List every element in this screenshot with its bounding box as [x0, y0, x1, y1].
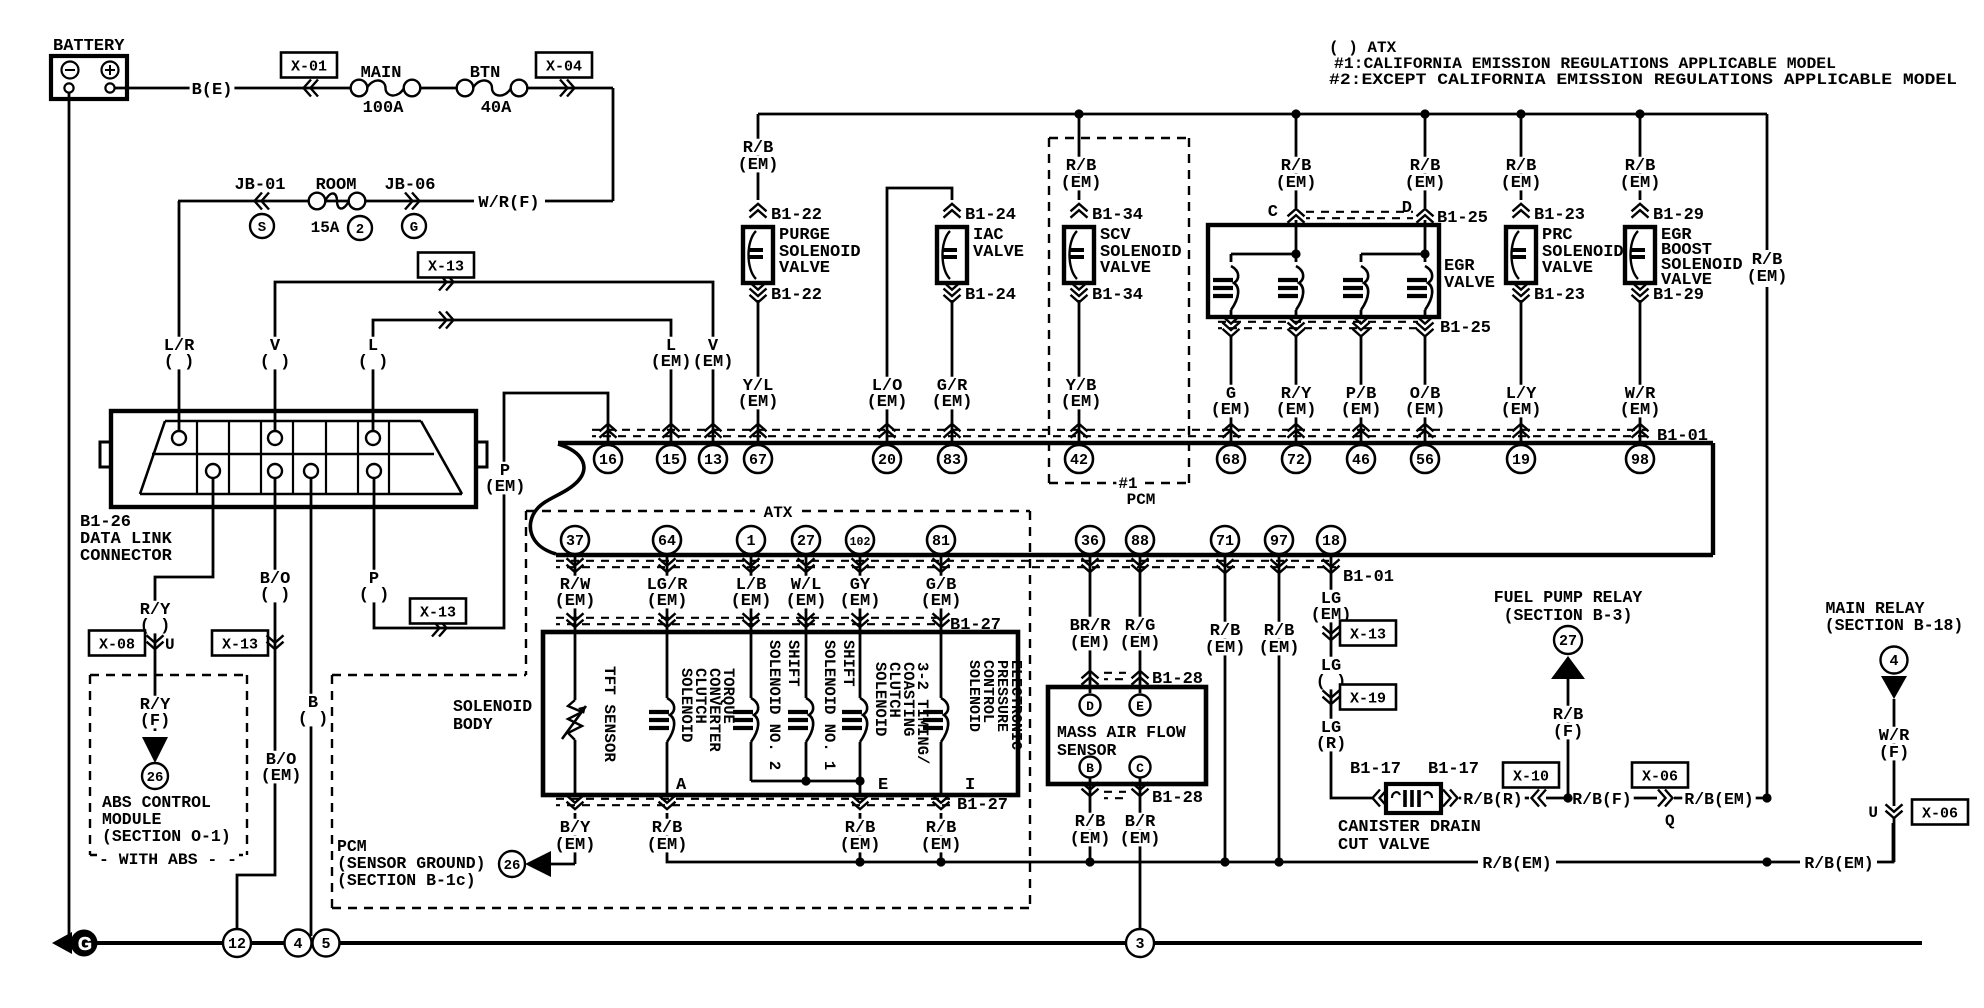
wire PCM pin 71 to R/B rail, label R/B(EM) — [1224, 556, 1227, 862]
svg-text:83: 83 — [943, 452, 961, 469]
svg-text:26: 26 — [504, 858, 521, 874]
wire rail to main relay, label R/B(EM) — [1767, 861, 1800, 864]
svg-text:97: 97 — [1270, 533, 1288, 550]
svg-text:CANISTER DRAIN: CANISTER DRAIN — [1338, 818, 1481, 837]
svg-text:(EM): (EM) — [1259, 639, 1300, 658]
wire PCM pin 102 to solenoid body, label GY(EM) — [859, 555, 862, 632]
svg-text:SOLENOID NO. 1: SOLENOID NO. 1 — [820, 640, 838, 770]
electronic pressure control solenoid — [940, 632, 943, 698]
connector line B1-25 top — [1306, 211, 1413, 213]
svg-text:B1-23: B1-23 — [1534, 286, 1585, 305]
svg-text:B(E): B(E) — [192, 81, 233, 100]
svg-text:R/B(F): R/B(F) — [1572, 790, 1631, 809]
wire PCM pin 88 to MAF E, label R/G(EM) — [1139, 556, 1142, 693]
node rail feeder junction — [1762, 857, 1771, 866]
data link connector pin B/O — [268, 464, 282, 478]
svg-text:5: 5 — [321, 936, 330, 953]
connector X-13 box upper — [418, 253, 474, 278]
connector X-13 at LG wire — [1340, 621, 1396, 646]
connector X-06 at pump wire — [1632, 763, 1688, 788]
PCM pin 18 — [1317, 526, 1345, 554]
svg-text:W/R(F): W/R(F) — [478, 194, 539, 213]
node EGR C tap — [1291, 109, 1300, 118]
svg-text:3: 3 — [1135, 936, 1144, 953]
node 26 sensor ground — [499, 851, 525, 877]
IAC valve connector B1-24 bottom chevron — [944, 282, 961, 290]
wire SCV valve to PCM pin 42, label Y/B(EM) — [1078, 300, 1081, 443]
svg-text:B1-01: B1-01 — [1343, 568, 1394, 587]
PCM pin 36 — [1076, 526, 1104, 554]
MAF pin C — [1130, 757, 1151, 778]
svg-text:13: 13 — [704, 452, 722, 469]
wire canister valve to fuel pump node, label R/B(R) — [1459, 797, 1529, 800]
svg-text:SHIFT: SHIFT — [784, 640, 802, 687]
wire PCM pin 27 to solenoid body, label W/L(EM) — [805, 555, 808, 632]
svg-text:VALVE: VALVE — [1100, 259, 1151, 278]
EGR BOOST valve connector B1-29 bottom chevron — [1632, 282, 1649, 290]
connector X-10 — [1503, 763, 1559, 788]
svg-text:(EM): (EM) — [786, 592, 827, 611]
svg-text:VALVE: VALVE — [1444, 274, 1495, 293]
wire bus to EGR valve pin D, label R/B(EM) — [1424, 114, 1427, 208]
svg-text:100A: 100A — [363, 99, 405, 118]
data link connector pin V — [268, 431, 282, 445]
node pin97 junction — [1274, 857, 1283, 866]
svg-text:(EM): (EM) — [647, 592, 688, 611]
node shift no.1 junction — [801, 776, 810, 785]
connector X-19 — [1340, 685, 1396, 710]
PURGE valve connector B1-22 bottom chevron — [750, 282, 767, 290]
svg-text:U: U — [165, 636, 175, 654]
svg-text:( ): ( ) — [359, 586, 390, 605]
PCM pin 102 — [846, 526, 874, 554]
PCM pin 27 — [792, 526, 820, 554]
svg-text:102: 102 — [850, 536, 871, 549]
ground node 12 — [223, 929, 251, 957]
wire EGR valve to PCM pin 72, label R/Y(EM) — [1295, 336, 1298, 443]
PRC valve connector B1-23 top chevron — [1513, 204, 1530, 212]
PCM pin 20 — [873, 445, 901, 473]
wire R/B(EM) supply bus — [758, 113, 1767, 116]
PCM sensor ground arrow — [525, 851, 551, 877]
svg-text:37: 37 — [566, 533, 584, 550]
wire solenoid I output to R/B rail, label R/B(EM) — [940, 813, 943, 862]
svg-text:X-13: X-13 — [428, 259, 464, 276]
TFT sensor — [574, 632, 577, 700]
node EGR coil1 junction — [1291, 249, 1300, 258]
wire PCM pin 81 to solenoid body, label G/B(EM) — [940, 555, 943, 632]
svg-text:U: U — [1868, 804, 1878, 822]
svg-text:(EM): (EM) — [731, 592, 772, 611]
data link connector pin L/R — [172, 431, 186, 445]
svg-text:C: C — [1268, 203, 1278, 222]
svg-text:SOLENOID: SOLENOID — [677, 668, 695, 742]
svg-text:X-13: X-13 — [222, 637, 258, 654]
svg-text:27: 27 — [1559, 633, 1577, 650]
svg-text:X-06: X-06 — [1922, 806, 1958, 823]
shift solenoid no.2 — [750, 632, 753, 698]
wire bus to PRC solenoid valve, label R/B(EM) — [1520, 114, 1523, 200]
svg-text:(EM): (EM) — [1341, 401, 1382, 420]
svg-text:18: 18 — [1322, 533, 1340, 550]
svg-text:B: B — [1086, 761, 1094, 776]
svg-text:BATTERY: BATTERY — [53, 37, 125, 56]
PCM pin 42 — [1065, 445, 1093, 473]
SCV valve connector B1-34 top chevron — [1071, 204, 1088, 212]
ground rail wire — [69, 941, 1922, 945]
svg-text:E: E — [878, 776, 888, 795]
svg-text:ROOM: ROOM — [316, 176, 357, 195]
svg-text:(SECTION B-3): (SECTION B-3) — [1504, 606, 1633, 625]
svg-text:(EM): (EM) — [921, 592, 962, 611]
wire EGR boost valve to PCM pin 98, label W/R(EM) — [1639, 300, 1642, 443]
fuel pump relay arrow — [1551, 656, 1585, 679]
ground node 4 — [285, 930, 312, 957]
svg-text:(EM): (EM) — [647, 836, 688, 855]
canister drain cut valve body — [1386, 784, 1441, 813]
wire PCM pin 18 to canister valve, labels LG(EM) LG( ) LG(R) — [1331, 556, 1372, 798]
wire EGR valve to PCM pin 68, label G(EM) — [1230, 336, 1233, 443]
svg-text:B1-28: B1-28 — [1152, 789, 1203, 808]
svg-text:(EM): (EM) — [738, 393, 779, 412]
wire X-13 lower: DLC L to PCM pin 15 — [373, 320, 671, 443]
svg-text:4: 4 — [1889, 653, 1898, 670]
PCM pin 72 — [1282, 445, 1310, 473]
svg-text:R/B(EM): R/B(EM) — [1482, 854, 1551, 873]
PCM pin 71 — [1211, 526, 1239, 554]
svg-text:(EM): (EM) — [1405, 401, 1446, 420]
PCM pin 81 — [927, 526, 955, 554]
svg-text:26: 26 — [147, 770, 164, 786]
svg-text:(EM): (EM) — [1620, 174, 1661, 193]
wire PCM pin 1 to solenoid body, label L/B(EM) — [750, 555, 753, 632]
EGR BOOST valve body — [1625, 227, 1655, 283]
svg-text:R/B(EM): R/B(EM) — [1684, 790, 1753, 809]
MAF pin E — [1130, 695, 1151, 716]
connector line B1-27 bottom — [567, 795, 584, 803]
data link connector pin R/Y — [206, 464, 220, 478]
svg-text:(R): (R) — [1316, 735, 1347, 754]
connector X-13 at B/O wire — [212, 631, 268, 656]
EGR valve coil — [1425, 266, 1432, 310]
fuse ROOM 15A — [314, 176, 359, 193]
svg-text:(F): (F) — [140, 712, 171, 731]
wire DLC R/Y down to ABS module, label R/Y( ) — [155, 478, 213, 731]
svg-text:R/B(EM): R/B(EM) — [1804, 854, 1873, 873]
EGR valve body — [1208, 225, 1439, 317]
svg-text:(EM): (EM) — [1501, 401, 1542, 420]
wire battery to X-01, label B(E) — [115, 87, 351, 90]
svg-text:(EM): (EM) — [1211, 401, 1252, 420]
wire battery negative to ground rail — [68, 93, 71, 941]
svg-text:X-10: X-10 — [1513, 769, 1549, 786]
data link connector pin L — [366, 431, 380, 445]
svg-text:CONNECTOR: CONNECTOR — [80, 547, 173, 566]
svg-text:B1-24: B1-24 — [965, 286, 1016, 305]
svg-text:B1-22: B1-22 — [771, 206, 822, 225]
svg-text:4: 4 — [293, 936, 302, 953]
node EGR boost tap — [1635, 109, 1644, 118]
PCM pin 56 — [1411, 445, 1439, 473]
wire main relay down, label W/R(F) — [1893, 699, 1896, 806]
svg-text:(SECTION B-1c): (SECTION B-1c) — [337, 871, 476, 890]
svg-text:(EM): (EM) — [1120, 634, 1161, 653]
svg-text:72: 72 — [1287, 452, 1305, 469]
svg-text:(EM): (EM) — [1070, 634, 1111, 653]
svg-text:(SECTION B-18): (SECTION B-18) — [1825, 616, 1964, 635]
wire EGR valve to PCM pin 46, label P/B(EM) — [1360, 336, 1363, 443]
PCM pin 16 — [594, 445, 622, 473]
svg-text:X-04: X-04 — [546, 59, 582, 76]
svg-text:R/B(R): R/B(R) — [1463, 790, 1522, 809]
connector line B1-25 bottom — [1223, 316, 1240, 324]
EGR valve coil — [1296, 266, 1303, 310]
svg-text:56: 56 — [1416, 452, 1434, 469]
PCM pin 64 — [653, 526, 681, 554]
3-2 timing coasting clutch solenoid — [859, 632, 862, 698]
connector X-08 — [89, 631, 145, 656]
wire bus right down to relay network, label R/B(EM) — [1766, 114, 1769, 250]
svg-text:B1-29: B1-29 — [1653, 206, 1704, 225]
PCM pin 19 — [1507, 445, 1535, 473]
PCM pin 37 — [561, 526, 589, 554]
SCV valve body — [1064, 227, 1094, 283]
node PRC tap — [1516, 109, 1525, 118]
wire MAF B to R/B rail, label R/B(EM) — [1089, 778, 1092, 862]
torque converter clutch solenoid — [666, 632, 669, 698]
canister valve connector B1-17 left — [1373, 790, 1381, 807]
wire MAF C to ground node 3, label B/R(EM) — [1139, 778, 1142, 929]
connector X-01 — [281, 53, 337, 78]
svg-text:(EM): (EM) — [1276, 174, 1317, 193]
node 26 ABS — [142, 763, 168, 789]
data link connector B1-26 body — [111, 411, 476, 507]
wire fuel pump relay to junction, label R/B(F) — [1567, 679, 1570, 798]
IAC valve body — [937, 227, 967, 283]
svg-text:B1-24: B1-24 — [965, 206, 1016, 225]
SCV valve connector B1-34 bottom chevron — [1071, 282, 1088, 290]
svg-text:12: 12 — [228, 936, 246, 953]
ABS control module dashed box — [90, 674, 247, 676]
svg-text:(EM): (EM) — [485, 478, 526, 497]
svg-text:( ): ( ) — [260, 586, 291, 605]
wire room fuse row to DLC pin L/R, label L/R( ) — [178, 201, 181, 431]
svg-text:I: I — [965, 776, 975, 795]
svg-text:20: 20 — [878, 452, 896, 469]
svg-text:67: 67 — [749, 452, 767, 469]
node feeder junction — [1762, 793, 1771, 802]
svg-text:46: 46 — [1352, 452, 1370, 469]
svg-text:42: 42 — [1070, 452, 1088, 469]
node pin71 junction — [1220, 857, 1229, 866]
svg-text:2: 2 — [356, 222, 364, 238]
node 27 fuel pump relay — [1554, 626, 1582, 654]
wire X-04 down to W/R(F) row — [612, 88, 615, 201]
svg-text:(SECTION O-1): (SECTION O-1) — [102, 827, 231, 846]
shift solenoid no.1 — [805, 632, 808, 698]
svg-text:VALVE: VALVE — [1661, 271, 1712, 290]
svg-text:JB-06: JB-06 — [384, 176, 435, 195]
wire PCM pin 20 to IAC valve top, label L/O(EM) — [887, 188, 952, 443]
data link connector pin B — [304, 464, 318, 478]
svg-text:(F): (F) — [1879, 744, 1910, 763]
svg-text:(F): (F) — [1553, 723, 1584, 742]
PCM pin 67 — [744, 445, 772, 473]
svg-text:A: A — [676, 776, 687, 795]
svg-text:27: 27 — [797, 533, 815, 550]
wire shift no.1 to node E — [806, 780, 860, 783]
svg-text:C: C — [1136, 761, 1144, 776]
connector line B1-28 bottom — [1104, 791, 1126, 793]
svg-text:SOLENOID: SOLENOID — [871, 662, 889, 736]
wire TFT sensor output to sensor ground, label B/Y(EM) — [574, 813, 577, 864]
wire to R/B(EM) feeder, label R/B(EM) — [1674, 797, 1767, 800]
svg-text:(EM): (EM) — [1747, 268, 1788, 287]
svg-text:( ): ( ) — [358, 353, 389, 372]
svg-text:E: E — [1136, 699, 1144, 714]
PCM pin 83 — [938, 445, 966, 473]
svg-text:ATX: ATX — [764, 504, 793, 522]
svg-text:CUT VALVE: CUT VALVE — [1338, 836, 1430, 855]
node fuel pump relay tap — [1563, 793, 1572, 802]
PCM pin 97 — [1265, 526, 1293, 554]
wire DLC P to PCM pin 16 via X-13, labels P( ) and P(EM) — [374, 393, 608, 628]
connector X-06 at main relay wire — [1886, 804, 1903, 812]
svg-text:S: S — [258, 220, 266, 236]
PCM pin 1 — [737, 526, 765, 554]
node EGR coil2 junction — [1420, 249, 1429, 258]
svg-text:B1-17: B1-17 — [1428, 760, 1479, 779]
junction JB-01 — [232, 176, 287, 193]
PCM pin 98 — [1626, 445, 1654, 473]
svg-text:(EM): (EM) — [840, 592, 881, 611]
svg-text:(EM): (EM) — [1070, 830, 1111, 849]
wire R/B(EM) rail label left — [1480, 855, 1553, 871]
solenoid body box — [543, 632, 1018, 795]
wire solenoid E output to R/B rail, label R/B(EM) — [859, 813, 862, 862]
wire EGR valve to PCM pin 56, label O/B(EM) — [1424, 336, 1427, 443]
EGR valve coil — [1231, 266, 1238, 310]
svg-text:X-13: X-13 — [420, 605, 456, 622]
wire between fuses — [420, 87, 457, 90]
svg-text:SHIFT: SHIFT — [839, 640, 857, 687]
svg-text:#2:EXCEPT CALIFORNIA EMISSION: #2:EXCEPT CALIFORNIA EMISSION REGULATION… — [1329, 71, 1957, 89]
svg-text:- WITH ABS - -: - WITH ABS - - — [99, 851, 237, 869]
svg-text:PCM: PCM — [1127, 491, 1156, 509]
node EGR D tap — [1420, 109, 1429, 118]
mass air flow sensor box — [1048, 687, 1206, 784]
svg-text:(EM): (EM) — [932, 393, 973, 412]
svg-text:X-08: X-08 — [99, 637, 135, 654]
wire PCM pin 37 to solenoid body, label R/W(EM) — [574, 555, 577, 632]
node MAF B junction — [1085, 857, 1094, 866]
wire bus to EGR valve pin C, label R/B(EM) — [1295, 114, 1298, 208]
svg-text:68: 68 — [1222, 452, 1240, 469]
svg-text:X-19: X-19 — [1350, 691, 1386, 708]
node I output junction — [936, 857, 945, 866]
PCM pin 46 — [1347, 445, 1375, 473]
PCM pin 13 — [699, 445, 727, 473]
ATX dashed region with PCM sensor ground — [526, 510, 755, 512]
wire DLC B down to ground nodes 4/5, label B( ) — [310, 478, 313, 936]
svg-text:(EM): (EM) — [1061, 393, 1102, 412]
svg-text:B1-34: B1-34 — [1092, 286, 1143, 305]
wire shift no.2 to node E — [751, 780, 806, 783]
svg-text:19: 19 — [1512, 452, 1530, 469]
wire to fuel pump relay junction, label R/B(F) — [1546, 797, 1657, 800]
svg-text:15: 15 — [662, 452, 680, 469]
label R/Y(F) — [138, 696, 173, 713]
svg-text:JB-01: JB-01 — [234, 176, 285, 195]
wire PCM pin 36 to MAF D, label BR/R(EM) — [1089, 556, 1092, 693]
svg-text:SOLENOID NO. 2: SOLENOID NO. 2 — [765, 640, 783, 770]
svg-text:D: D — [1086, 699, 1094, 714]
wire rail to feeder — [1556, 861, 1767, 864]
node SCV tap — [1074, 109, 1083, 118]
svg-text:VALVE: VALVE — [1542, 259, 1593, 278]
wire IAC valve to PCM pin 83, label G/R(EM) — [951, 300, 954, 443]
connector line B1-28 top — [1104, 672, 1126, 674]
svg-text:X-01: X-01 — [291, 59, 327, 76]
PCM pin 88 — [1126, 526, 1154, 554]
svg-text:(EM): (EM) — [840, 836, 881, 855]
EGR valve internal wires — [1295, 220, 1298, 262]
svg-text:G: G — [410, 220, 418, 236]
PURGE valve body — [743, 227, 773, 283]
wire purge valve to PCM pin 67, label Y/L(EM) — [757, 300, 760, 443]
svg-text:FUEL PUMP RELAY: FUEL PUMP RELAY — [1494, 588, 1643, 607]
wire PCM pin 97 to R/B rail, label R/B(EM) — [1278, 556, 1281, 862]
wire DLC B/O down to ground node 12, labels B/O( ) B/O(EM) — [237, 478, 275, 929]
data link connector pin P — [367, 464, 381, 478]
junction JB-06 — [382, 176, 437, 193]
svg-text:B1-34: B1-34 — [1092, 206, 1143, 225]
wire bus to EGR boost solenoid valve, label R/B(EM) — [1639, 114, 1642, 200]
svg-text:TFT SENSOR: TFT SENSOR — [600, 666, 618, 762]
svg-text:SOLENOID: SOLENOID — [965, 660, 982, 732]
wire W/R(F) row — [178, 200, 474, 203]
svg-text:15A: 15A — [311, 219, 340, 237]
svg-text:40A: 40A — [481, 99, 512, 118]
svg-text:71: 71 — [1216, 533, 1234, 550]
svg-text:X-13: X-13 — [1350, 627, 1386, 644]
svg-text:(EM): (EM) — [555, 592, 596, 611]
ABS arrow to circuit 26 — [142, 737, 168, 763]
svg-text:( ): ( ) — [298, 710, 329, 729]
svg-text:(EM): (EM) — [867, 393, 908, 412]
ground G — [52, 932, 72, 954]
PCM pin 15 — [657, 445, 685, 473]
PRC valve connector B1-23 bottom chevron — [1513, 282, 1530, 290]
svg-text:(EM): (EM) — [693, 353, 734, 372]
dashed box #1 California model — [1049, 137, 1189, 139]
svg-text:(EM): (EM) — [1061, 174, 1102, 193]
svg-text:B1-23: B1-23 — [1534, 206, 1585, 225]
svg-text:B1-27: B1-27 — [957, 796, 1008, 815]
canister valve connector B1-17 right — [1443, 790, 1451, 807]
svg-text:BODY: BODY — [453, 715, 493, 734]
svg-text:1: 1 — [746, 533, 755, 550]
svg-text:( ): ( ) — [260, 353, 291, 372]
wire X-13 upper: DLC V to PCM pin 13 — [275, 282, 713, 443]
ground node 5 — [313, 930, 340, 957]
svg-text:VALVE: VALVE — [779, 259, 830, 278]
svg-text:16: 16 — [599, 452, 617, 469]
EGR valve coil — [1361, 266, 1368, 310]
PCM pin 68 — [1217, 445, 1245, 473]
MAF pin B — [1080, 757, 1101, 778]
wire PRC valve to PCM pin 19, label L/Y(EM) — [1520, 300, 1523, 443]
